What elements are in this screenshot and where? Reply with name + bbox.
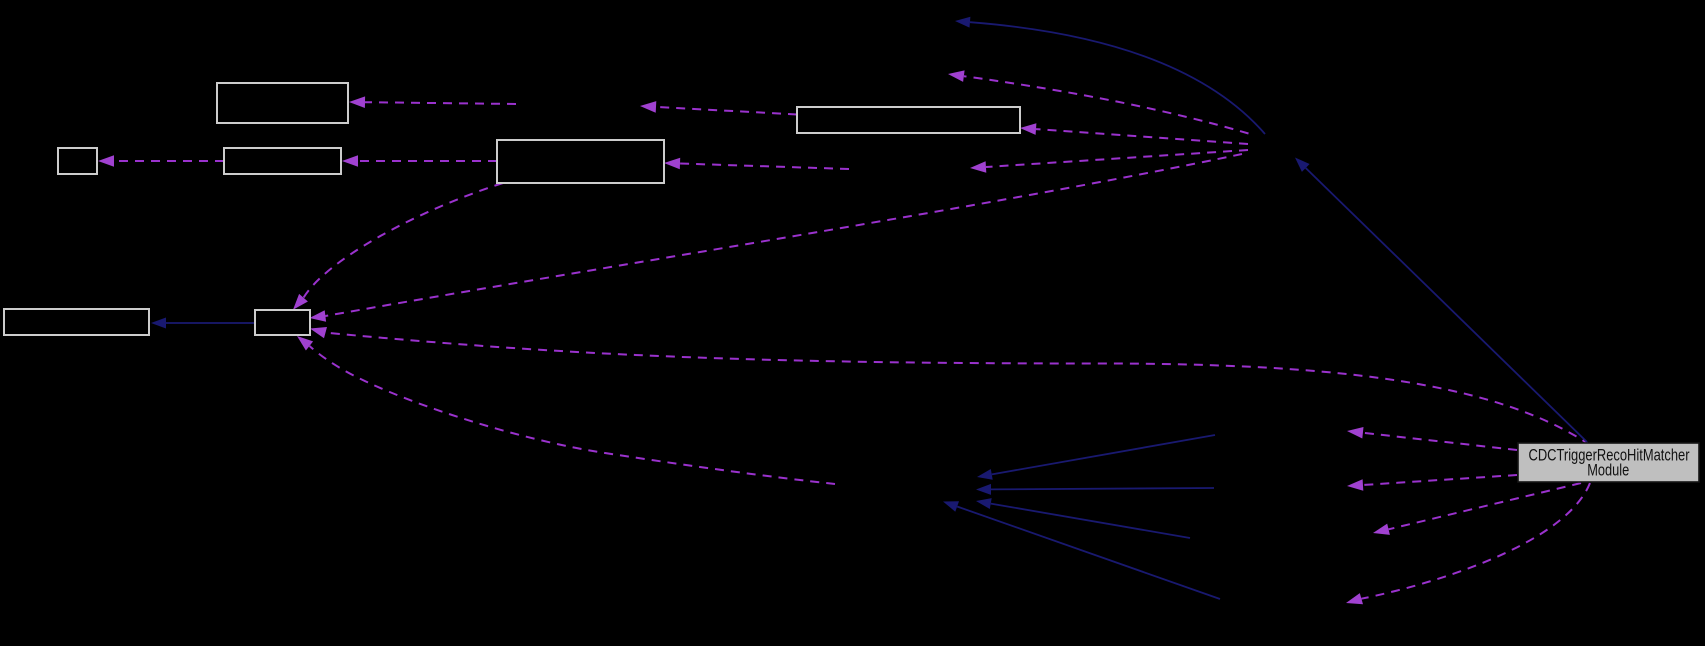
svg-text:Module: Module [1587,462,1629,480]
